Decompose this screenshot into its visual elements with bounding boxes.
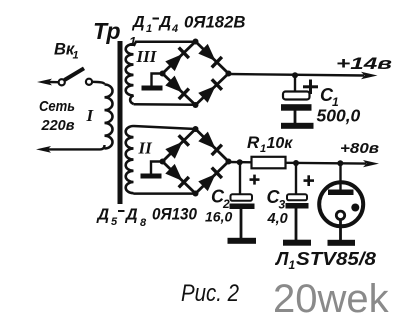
wire switch to winding I [92,82,105,85]
wire winding II bottom to bridge2 bottom [134,192,196,195]
svg-text:III: III [136,47,158,66]
svg-text:4,0: 4,0 [267,211,288,227]
transformer winding II (bottom secondary) [126,126,134,193]
wire bridge2 right to R1 [229,161,253,164]
node bridge2 right [226,159,232,165]
capacitor C2 negative plate [230,204,255,210]
diode Д6 (bridge2 upper-right) [198,131,223,156]
wire bridge1 left to ground [152,74,163,87]
svg-text:Рис. 2: Рис. 2 [181,280,239,307]
diode Д4 (bridge1 lower-right) [198,78,223,103]
node bridge1 bottom [193,102,199,108]
wire winding III top to bridge1 top [134,42,196,46]
wire rail to C1 [294,75,296,93]
svg-text:0Я130: 0Я130 [152,206,198,224]
diode Д2 (bridge1 upper-right) [198,44,223,69]
svg-text:4: 4 [171,23,178,35]
node tube junction [337,160,343,166]
capacitor C2 positive plate [231,194,253,201]
capacitor C1 negative plate [281,104,312,111]
svg-text:16,0: 16,0 [205,209,232,225]
svg-text:+14в: +14в [336,54,392,73]
transformer core [118,41,123,204]
svg-text:1: 1 [260,143,266,155]
wire C1 to ground [294,111,297,125]
plus sign C1 [303,80,318,95]
bridge 2 diamond (Д5-Д8) [163,129,229,194]
label Л1 STV85/8 [274,249,376,272]
label C1 [320,85,339,109]
svg-text:220в: 220в [41,117,75,134]
diode Д3 (bridge1 lower-left) [165,75,190,100]
wire +80в rail [286,162,367,165]
capacitor C3 positive plate [287,194,307,200]
label Вк1 (switch designator) [54,41,79,62]
resistor R1 [252,157,286,169]
wire C2 to ground [240,209,243,239]
svg-text:R: R [247,133,260,152]
node bridge1 right [226,71,232,77]
node C3 junction [293,160,299,166]
svg-text:Тр: Тр [93,18,121,44]
wire tube cathode to ground [339,220,342,242]
node bridge1 left [160,71,166,77]
label C3 [267,187,286,212]
plus sign C2 [250,175,260,185]
svg-text:Сеть: Сеть [39,98,75,115]
transformer winding I (primary) [105,85,113,149]
label R1 10к [247,133,293,155]
wire winding I to mains bottom with left arrow [36,145,105,153]
svg-text:Д: Д [158,14,172,31]
plus sign C3 [304,175,315,186]
wire C3 to ground [295,209,298,241]
wire winding III bottom to bridge1 bottom [134,103,196,106]
bridge 1 diamond (Д1-Д4) [163,42,229,106]
node bridge2 left [160,159,166,165]
ground (bridge1) [142,86,163,91]
label Д5-Д8 0Я130 (bottom bridge diodes) [96,206,198,230]
svg-text:5: 5 [111,216,118,228]
ground (tube) [328,240,356,246]
svg-text:STV85/8: STV85/8 [296,249,376,269]
tube Л1 anode bar [328,190,354,196]
label C2 [211,187,230,212]
tube Л1 cathode circle [336,211,344,219]
node C1 junction [292,72,298,78]
svg-text:+80в: +80в [340,140,379,157]
svg-text:Д: Д [124,207,138,224]
transformer winding III (top secondary) [126,44,134,104]
arrow +80в [363,160,379,167]
diode Д7 (bridge2 lower-left) [165,164,190,189]
ground (bridge2) [141,174,162,179]
svg-text:1: 1 [146,23,152,35]
svg-text:10к: 10к [267,135,294,152]
svg-text:1: 1 [73,50,79,62]
svg-text:3: 3 [279,198,286,212]
svg-text:II: II [138,139,154,158]
node bridge2 bottom [193,191,199,197]
ground (C1) [281,123,314,129]
wire rail to C3 [295,163,297,196]
ground (C3) [283,240,311,246]
svg-text:1: 1 [289,258,296,272]
capacitor C1 positive plate [283,92,310,100]
svg-text:Д: Д [96,207,110,224]
tube Л1 envelope [319,182,363,226]
node bridge2 top [193,126,199,132]
diode Д8 (bridge2 lower-right) [198,166,223,191]
wire winding II top to bridge2 top [134,126,196,129]
wire bridge2 left to ground [151,162,163,175]
svg-text:500,0: 500,0 [317,106,361,126]
diode Д5 (bridge2 upper-left) [165,134,190,159]
svg-text:8: 8 [140,217,147,229]
wire mains top with left arrow [37,79,59,86]
tube Л1 gas dot [351,204,359,212]
switch Вк1 [59,68,92,85]
svg-text:0Я182В: 0Я182В [184,14,246,32]
svg-text:Д: Д [131,14,145,31]
label Д1-Д4 0Я182В (top bridge diodes) [131,14,246,36]
capacitor C3 negative plate [286,203,309,209]
node C2 junction [237,159,243,165]
wire rail to C2 [239,162,241,195]
label Тр1 (transformer designator) [93,18,136,49]
wire +14в rail [229,74,365,76]
wire rail to tube anode [339,163,341,191]
node bridge1 top [193,39,199,45]
diode Д1 (bridge1 upper-left) [165,46,190,71]
arrow +14в [361,72,378,79]
svg-text:20wek: 20wek [273,277,390,321]
svg-text:Л: Л [274,249,289,269]
label Сеть 220в (mains) [39,98,75,134]
ground (C2) [228,238,257,244]
